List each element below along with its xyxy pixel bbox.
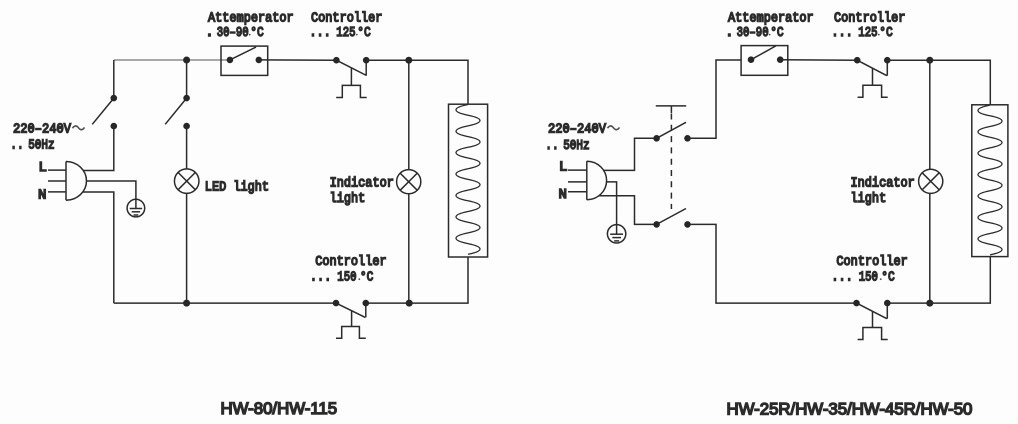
lamp indicator right [919,169,943,193]
thermal actuator controller 125 [336,68,367,98]
wire: indicator branch upper vertical [408,60,410,169]
wire: bottom rail to lower pole right [688,224,857,303]
heater element box right [972,105,1008,257]
wire: attemperator to controller125 [259,59,337,61]
node junction top of LED branch [183,57,190,64]
switch S3 upper pole [653,122,691,141]
svg-text:light: light [851,190,887,206]
label N right [559,187,567,203]
label Controller 125 [311,9,382,25]
controller 150C thermal switch right [853,300,890,319]
svg-text:220–240V: 220–240V [548,121,606,137]
lamp indicator left [397,170,421,194]
svg-text:220–240V: 220–240V [13,121,71,137]
svg-text:.: . [725,25,733,41]
svg-text:..: .. [545,137,558,154]
heater coil right [978,105,1002,255]
lamp LED [174,169,199,194]
attemperator switch contacts right [748,46,784,63]
switch S3 lower pole [653,209,691,228]
svg-text:LED light: LED light [205,179,269,195]
switch S2 LED branch [165,95,190,130]
svg-text:L: L [39,160,47,176]
svg-text:Indicator: Indicator [851,175,915,191]
attemperator box [221,46,268,75]
label 220-240V right [548,121,606,137]
svg-text:125: 125 [858,25,877,41]
wire: attemperator to controller125 right [780,59,857,62]
wire: plug L to upper pole [604,138,657,170]
controller 150C thermal switch left [333,300,369,318]
thermal actuator controller 150 left [336,311,366,338]
svg-text:150: 150 [337,269,356,285]
svg-text:50Hz: 50Hz [563,138,589,154]
svg-text:°C: °C [357,24,371,41]
label ... 125 C [309,24,371,41]
wire: LED lamp to bottom rail [186,193,188,303]
svg-text:..: .. [10,136,23,153]
wire: bottom rail left segment [114,302,336,304]
svg-text:Controller: Controller [315,253,386,269]
wire: indicator branch upper vertical right [929,60,931,169]
controller 125C thermal switch [333,57,369,76]
node junction LED branch bottom [183,300,190,307]
label HW-25R/HW-35/HW-45R/HW-50 [727,399,973,418]
svg-text:50Hz: 50Hz [28,137,54,153]
label Controller 125 right [834,9,905,25]
svg-text:30–90: 30–90 [737,25,769,41]
label light right [851,190,887,206]
wire: LED branch top vertical [186,60,188,98]
wire: heater bottom to rail [366,257,468,303]
tilde of 220-240V~ right [608,126,620,130]
svg-text:°C: °C [360,268,374,285]
svg-text:L: L [559,160,567,176]
label LED light [205,179,269,195]
svg-text:...: ... [309,24,330,40]
svg-text:°C: °C [250,24,264,41]
wire: plug earth lead right [607,182,617,225]
wire: upper pole to attemperator box right [688,60,742,138]
label Controller 150 left [315,253,386,269]
heater coil left [456,105,480,255]
plug P1 mains input [48,162,86,201]
node junction indicator branch top right [926,57,933,64]
wire: S1 to plug L [83,126,114,170]
label ... 150 C right [831,268,895,285]
svg-text:...: ... [310,269,331,285]
label .. 50Hz [10,136,54,153]
label . 30-90 C [205,24,264,41]
svg-text:.: . [205,25,213,41]
svg-text:HW-80/HW-115: HW-80/HW-115 [221,399,338,418]
wire: controller125 to heater corner [366,60,468,104]
label . 30-90 C right [725,24,784,41]
wire: top rail grey segment corner to attemperator [114,59,230,61]
heater element box left [449,104,488,257]
svg-text:N: N [38,187,46,203]
svg-text:...: ... [831,24,852,40]
label light [330,190,366,206]
wire: plug N to lower pole [599,196,657,225]
wire: indicator branch lower vertical [408,194,410,303]
svg-text:°C: °C [770,24,784,41]
controller 125C thermal switch right [854,57,891,76]
svg-text:°C: °C [881,268,895,285]
label ... 150 C left [310,268,374,285]
label Controller 150 right [836,253,907,269]
svg-text:...: ... [831,269,852,285]
svg-text:light: light [330,190,366,206]
wire: heater bottom to rail right [887,257,990,304]
svg-text:Controller: Controller [836,253,907,269]
wire: S2 to LED lamp [186,126,188,169]
label N [38,187,46,203]
label L [39,160,47,176]
label .. 50Hz right [545,137,589,154]
label L right [559,160,567,176]
label Attemperator right [728,9,814,25]
tilde of 220-240V~ [73,126,85,130]
label HW-80/HW-115 [221,399,338,418]
wire: indicator branch lower vertical right [929,193,931,303]
node junction indicator bottom right [926,300,933,307]
label ... 125 C right [831,24,893,41]
attemperator box right [741,46,788,76]
thermal actuator controller 125 right [858,69,888,98]
svg-text:N: N [559,187,567,203]
label Attemperator [208,9,294,25]
svg-text:150: 150 [859,269,878,285]
plug P2 mains input right [568,161,607,200]
wire: plug N to bottom rail [83,192,114,303]
ground protective earth symbol right [607,225,625,243]
thermal actuator controller 150 right [858,312,888,340]
label Indicator [330,175,394,191]
node junction indicator bottom [406,300,413,307]
svg-text:125: 125 [336,25,355,41]
wire: top-left corner vertical down to switch S1 [113,60,115,98]
svg-text:Indicator: Indicator [330,175,394,191]
label 220-240V [13,121,71,137]
svg-text:°C: °C [879,24,893,41]
mechanical link dashed line [670,114,672,210]
attemperator switch contacts [227,47,262,63]
node junction indicator branch top [405,57,412,64]
svg-text:HW-25R/HW-35/HW-45R/HW-50: HW-25R/HW-35/HW-45R/HW-50 [727,399,973,418]
wire: controller125 to heater corner right [887,60,990,105]
switch S1 mains [92,95,117,130]
label Indicator right [851,175,915,191]
wire: plug earth lead [87,181,136,199]
svg-text:30–90: 30–90 [217,25,249,41]
ground protective earth symbol [127,199,145,217]
double pole switch actuator bar [656,106,686,113]
